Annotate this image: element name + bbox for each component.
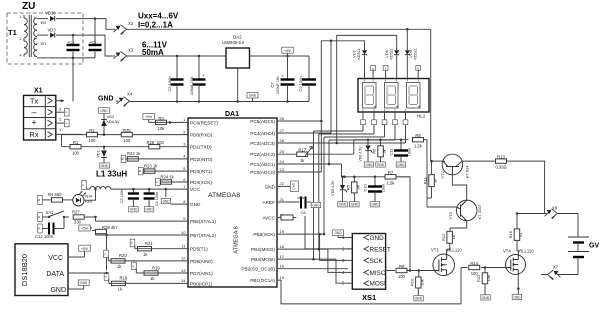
svg-text:GND: GND xyxy=(513,295,521,299)
svg-text:220uF 16V: 220uF 16V xyxy=(190,76,194,95)
resistor R17 xyxy=(297,147,313,163)
zener VD6 xyxy=(359,140,374,167)
resistor R23 xyxy=(144,163,158,173)
svg-text:GND: GND xyxy=(146,208,154,212)
svg-text:1,5k: 1,5k xyxy=(387,180,396,185)
svg-text:100: 100 xyxy=(123,138,131,143)
svg-text:IRLL110: IRLL110 xyxy=(446,248,462,253)
net box R18 xyxy=(104,273,109,281)
label +5V for R28 xyxy=(79,225,92,231)
svg-text:VCC: VCC xyxy=(190,187,201,192)
wire DA2 output +5V xyxy=(250,55,310,58)
svg-text:3k: 3k xyxy=(356,185,361,189)
wire VD10 to X2 corner xyxy=(56,17,106,20)
wire rail A drop xyxy=(430,29,432,161)
wire pin14 line xyxy=(109,282,188,284)
display digits xyxy=(363,83,421,109)
resistor R10 xyxy=(410,271,425,301)
svg-text:12: 12 xyxy=(181,256,186,261)
wire pin24 xyxy=(277,163,342,166)
svg-text:KT 814: KT 814 xyxy=(465,165,470,179)
resistor R15 xyxy=(476,268,491,301)
resistor R19 xyxy=(136,265,160,281)
svg-text:GND: GND xyxy=(377,163,385,167)
svg-text:25: 25 xyxy=(280,149,285,154)
transistor VT3 xyxy=(448,200,482,221)
svg-text:GND: GND xyxy=(101,164,109,168)
svg-text:26: 26 xyxy=(280,138,285,143)
svg-text:C5 100n: C5 100n xyxy=(167,76,172,91)
net box supply xyxy=(81,181,86,190)
wire pin25 up to base rail xyxy=(353,140,355,155)
svg-text:28: 28 xyxy=(280,116,285,121)
svg-text:X3: X3 xyxy=(128,48,134,53)
svg-text:13: 13 xyxy=(181,268,186,273)
svg-text:GND: GND xyxy=(351,203,359,207)
wire RESET line xyxy=(149,121,188,124)
svg-text:7: 7 xyxy=(34,54,36,58)
net box R21 xyxy=(130,239,135,247)
svg-text:PD6(AIN0): PD6(AIN0) xyxy=(190,259,213,264)
battery GV xyxy=(568,237,599,257)
label ATMEGA8 xyxy=(208,192,240,199)
svg-text:PB0(ICP1): PB0(ICP1) xyxy=(190,281,213,286)
transformer T1 label xyxy=(8,28,17,37)
svg-text:17: 17 xyxy=(280,254,285,259)
wire X6 net xyxy=(517,213,544,215)
wire X1 Tx row up to ground rail xyxy=(56,99,64,102)
svg-text:+C2: +C2 xyxy=(89,40,97,45)
svg-text:5: 5 xyxy=(34,16,36,20)
svg-text:3k: 3k xyxy=(382,149,387,153)
svg-text:R6: R6 xyxy=(372,148,377,154)
svg-text:W2: W2 xyxy=(41,21,47,25)
DS18B20 pin GND xyxy=(50,287,83,294)
wire pin10 line xyxy=(96,232,189,237)
wire pin16 stub xyxy=(277,268,348,270)
wire VCC line xyxy=(86,188,188,191)
svg-text:GND: GND xyxy=(100,109,108,113)
svg-text:R27: R27 xyxy=(72,209,80,214)
transistor VT2 xyxy=(440,154,470,178)
wire MOSI from pin17 xyxy=(277,258,347,283)
svg-text:PD1(TXD): PD1(TXD) xyxy=(190,145,212,150)
ground rail xyxy=(131,100,309,103)
svg-text:R2: R2 xyxy=(89,128,95,133)
svg-text:21: 21 xyxy=(280,197,285,202)
wire R7 to VT1 gate drop xyxy=(396,177,410,230)
svg-text:GND: GND xyxy=(371,203,379,207)
svg-text:1,5k: 1,5k xyxy=(414,143,423,148)
svg-text:R3: R3 xyxy=(158,116,164,121)
svg-text:T1: T1 xyxy=(8,28,17,37)
svg-text:C8: C8 xyxy=(301,210,307,215)
capacitor C4 xyxy=(144,189,159,212)
wire pin27 to rail D xyxy=(277,132,331,134)
svg-text:VT4: VT4 xyxy=(503,249,511,254)
svg-text:+: + xyxy=(202,73,205,78)
svg-text:C9 100n: C9 100n xyxy=(298,76,303,91)
wire VD4 to VCC xyxy=(84,189,95,200)
svg-text:DATA: DATA xyxy=(46,271,64,278)
wire rail I=0.2-1A xyxy=(127,28,431,31)
svg-text:1k: 1k xyxy=(433,179,438,183)
wire R14 to VT4 gate xyxy=(481,266,506,269)
svg-text:R19: R19 xyxy=(152,265,160,270)
wire R13 to X6 xyxy=(507,161,544,213)
transformer T1 secondary winding W1 xyxy=(34,37,47,58)
svg-text:PD0(RXD): PD0(RXD) xyxy=(190,133,213,138)
wire VD3 to C1 and X3 corner xyxy=(56,34,105,37)
svg-text:GND: GND xyxy=(312,203,320,207)
svg-text:R18: R18 xyxy=(120,276,128,281)
transformer T1 core xyxy=(29,15,31,57)
wire ground drop from C1 xyxy=(72,58,74,102)
svg-text:KD4,5V: KD4,5V xyxy=(107,120,121,124)
svg-text:VT2: VT2 xyxy=(440,171,445,179)
svg-text:HL2: HL2 xyxy=(417,114,426,119)
svg-text:4: 4 xyxy=(20,54,22,58)
net box minus row xyxy=(56,109,69,117)
wire SCK from pin19 xyxy=(277,233,347,261)
svg-text:27: 27 xyxy=(280,128,285,133)
svg-text:PD5(T1): PD5(T1) xyxy=(190,247,208,252)
resistor R16 xyxy=(508,212,523,254)
svg-text:ZU: ZU xyxy=(22,1,35,12)
connector X1 body xyxy=(24,95,56,140)
svg-text:PC4(ADC4): PC4(ADC4) xyxy=(250,131,275,136)
resistor R5 xyxy=(346,177,361,207)
svg-text:+C1: +C1 xyxy=(67,40,75,45)
svg-text:PB5(SCK): PB5(SCK) xyxy=(253,232,275,237)
svg-text:C11: C11 xyxy=(389,148,394,156)
svg-text:C4 100n: C4 100n xyxy=(155,192,159,206)
connector XS1 body xyxy=(342,234,391,303)
label +5V at DA2 output xyxy=(282,47,294,56)
connector X3 xyxy=(114,48,134,62)
label GND at X4 xyxy=(98,95,114,102)
svg-text:R20: R20 xyxy=(119,253,127,258)
svg-text:IRLL110: IRLL110 xyxy=(518,249,534,254)
svg-text:Tx: Tx xyxy=(30,96,39,105)
wire pin15 long route xyxy=(277,268,461,304)
wire DATA vertical xyxy=(105,272,108,275)
svg-text:GND: GND xyxy=(50,287,66,294)
svg-text:6: 6 xyxy=(34,37,36,41)
connector X7 xyxy=(548,265,579,280)
svg-text:GND: GND xyxy=(415,297,423,301)
label 6-11V xyxy=(142,41,168,50)
svg-text:KD522: KD522 xyxy=(390,49,394,60)
svg-text:C3 100n: C3 100n xyxy=(120,189,124,203)
capacitor C3 xyxy=(120,189,139,212)
svg-text:PD7(AIN1): PD7(AIN1) xyxy=(190,271,213,276)
svg-text:KD522: KD522 xyxy=(414,49,418,60)
capacitor C2 xyxy=(89,19,102,58)
resistor R25 xyxy=(121,128,132,143)
svg-text:VD3: VD3 xyxy=(48,28,57,33)
svg-text:+5V: +5V xyxy=(81,246,89,251)
capacitor C12 xyxy=(35,217,64,239)
svg-text:PC3(ADC3): PC3(ADC3) xyxy=(250,141,275,146)
svg-text:R10: R10 xyxy=(410,278,415,286)
svg-text:ATMEGA 8: ATMEGA 8 xyxy=(234,226,240,254)
capacitor C11 xyxy=(389,140,412,167)
connector X2 xyxy=(114,21,134,35)
wire pin25 line xyxy=(277,153,354,155)
net box R19 xyxy=(131,262,136,270)
wire gate rail N2 xyxy=(342,176,411,179)
svg-text:R14: R14 xyxy=(470,261,478,266)
svg-text:DA2: DA2 xyxy=(233,35,242,40)
svg-text:Rx: Rx xyxy=(29,130,38,139)
svg-text:+5V: +5V xyxy=(145,114,153,119)
wire pin23 to rail C xyxy=(277,171,321,173)
net box M xyxy=(121,155,126,163)
label 50mA xyxy=(142,48,164,57)
resistor R2 xyxy=(87,128,98,143)
svg-text:X2: X2 xyxy=(128,21,134,26)
resistor R22 xyxy=(127,151,141,161)
net box SA1 left xyxy=(37,213,42,222)
resistor R13 xyxy=(495,155,506,170)
resistor R3 xyxy=(156,116,167,131)
resistor R9 xyxy=(396,264,407,279)
svg-text:R12: R12 xyxy=(441,233,446,241)
svg-text:f: f xyxy=(385,67,386,71)
svg-text:+5V: +5V xyxy=(284,48,292,53)
svg-text:PB4(MISO): PB4(MISO) xyxy=(251,247,275,252)
transistor VT4 MOSFET xyxy=(503,249,534,276)
wire rail C xyxy=(320,41,364,172)
svg-text:24: 24 xyxy=(280,159,285,164)
display top pin squares xyxy=(371,66,421,79)
svg-text:PD2(INT0): PD2(INT0) xyxy=(190,157,213,162)
svg-text:R21: R21 xyxy=(145,241,153,246)
svg-text:R7: R7 xyxy=(388,170,394,175)
svg-text:F: F xyxy=(155,181,159,183)
svg-text:PD3(INT1): PD3(INT1) xyxy=(190,169,213,174)
label L1 33uH xyxy=(96,170,127,179)
wire X4 stub xyxy=(116,100,132,102)
resistor R21 xyxy=(135,241,154,257)
wire corner down to X2 xyxy=(106,19,115,30)
connector X1 label xyxy=(34,88,43,95)
resistor R14 xyxy=(461,261,480,276)
wire R9 to VT1 gate xyxy=(408,269,435,272)
svg-text:GND: GND xyxy=(397,163,405,167)
wire INT1 line xyxy=(143,170,188,172)
wire TXD line xyxy=(62,135,189,148)
svg-text:+: + xyxy=(281,74,284,79)
svg-text:R22 1k: R22 1k xyxy=(127,151,141,156)
svg-text:KD522: KD522 xyxy=(357,49,361,60)
label current xyxy=(138,21,173,30)
chip DA1 right pin labels xyxy=(241,116,284,283)
svg-text:X4: X4 xyxy=(127,92,133,97)
svg-text:R4 560: R4 560 xyxy=(48,192,62,197)
zener VD2 on RXD line xyxy=(99,108,121,135)
svg-text:2: 2 xyxy=(20,37,22,41)
svg-text:VD8: VD8 xyxy=(384,49,389,58)
svg-text:GND: GND xyxy=(482,296,490,300)
display HL2 box xyxy=(358,79,429,119)
resistor R26 xyxy=(146,140,164,149)
svg-text:1k: 1k xyxy=(451,235,456,239)
wire INT0 line xyxy=(126,158,188,160)
svg-text:10k: 10k xyxy=(486,275,491,281)
wire VT2 base to VT3 collector xyxy=(452,175,466,200)
DS18B20 pin VCC xyxy=(48,255,78,262)
wire VT2 collector to R13 xyxy=(462,160,495,162)
svg-text:23: 23 xyxy=(280,167,285,172)
svg-text:X7: X7 xyxy=(553,265,559,270)
svg-text:GND: GND xyxy=(365,163,373,167)
svg-text:100n: 100n xyxy=(382,184,386,192)
svg-text:R17: R17 xyxy=(298,148,306,153)
resistor R12 xyxy=(441,228,456,254)
svg-text:R8: R8 xyxy=(415,133,421,138)
capacitor C6 xyxy=(190,56,206,102)
microcontroller DA1 box xyxy=(188,111,277,287)
svg-text:AREF: AREF xyxy=(262,200,275,205)
svg-text:10k: 10k xyxy=(420,279,425,285)
wire VT3 emitter to VT1 drain xyxy=(450,221,467,228)
svg-text:GND: GND xyxy=(190,202,201,207)
wire AVCC stub xyxy=(277,215,297,220)
svg-text:330: 330 xyxy=(74,219,82,224)
svg-text:VD2: VD2 xyxy=(107,114,116,119)
temperature sensor DS18B20 box xyxy=(15,244,68,296)
wire X6 to battery xyxy=(558,214,579,238)
svg-text:0,33Ω: 0,33Ω xyxy=(495,165,506,170)
diode VD3 xyxy=(48,28,57,38)
svg-text:14: 14 xyxy=(181,278,186,283)
svg-text:100: 100 xyxy=(157,140,165,145)
svg-text:16: 16 xyxy=(280,264,285,269)
wire DA2 ground pin xyxy=(237,68,239,102)
svg-text:100n: 100n xyxy=(408,148,412,156)
svg-text:Uxx=4...6V: Uxx=4...6V xyxy=(138,12,179,21)
label +5V at DS18B20 xyxy=(78,245,90,257)
inductor L1 xyxy=(90,187,111,190)
net box R4 left xyxy=(37,195,42,204)
label Uxx xyxy=(138,12,179,21)
resistor R28 xyxy=(92,225,118,234)
svg-text:GND: GND xyxy=(249,94,257,98)
wire pin22 ground xyxy=(277,181,299,192)
svg-text:VT1: VT1 xyxy=(431,248,439,253)
DS18B20 pin DATA xyxy=(46,271,106,278)
diode VD7 xyxy=(352,47,368,79)
wire pin9 line xyxy=(84,216,188,221)
wire RXD line xyxy=(62,133,189,136)
svg-text:GND: GND xyxy=(370,235,385,242)
svg-text:KT 3107: KT 3107 xyxy=(477,204,482,220)
wire MISO from pin18 xyxy=(277,248,347,273)
svg-text:Red: Red xyxy=(85,199,92,204)
connector X6 xyxy=(545,206,558,219)
svg-text:SCK: SCK xyxy=(370,258,384,265)
resistor R6 xyxy=(372,140,387,167)
wire rail B xyxy=(337,35,397,143)
svg-text:R9: R9 xyxy=(399,264,405,269)
svg-text:GND: GND xyxy=(130,208,138,212)
net box B xyxy=(138,167,143,175)
diode VD9 xyxy=(405,29,418,78)
wire DATA drop xyxy=(106,235,108,271)
wire battery to X7 xyxy=(541,257,578,275)
svg-text:C10: C10 xyxy=(363,184,368,192)
svg-text:VD5 4,5V: VD5 4,5V xyxy=(331,180,335,196)
wire secondary bottom rail xyxy=(37,57,95,60)
svg-text:GND: GND xyxy=(334,231,342,235)
svg-text:R5: R5 xyxy=(346,184,351,190)
svg-text:DS18B20: DS18B20 xyxy=(20,254,29,286)
svg-text:R15: R15 xyxy=(476,274,481,282)
svg-text:GND: GND xyxy=(339,203,347,207)
svg-text:B: B xyxy=(138,170,142,172)
wire pin28 to rail C xyxy=(277,120,321,122)
svg-text:10k: 10k xyxy=(158,126,166,131)
svg-text:C12 100n: C12 100n xyxy=(35,234,54,239)
resistor R27 xyxy=(64,209,84,224)
svg-text:100n: 100n xyxy=(297,196,305,200)
net box plus row xyxy=(56,119,69,127)
capacitor C9 xyxy=(298,56,316,102)
svg-text:C7: C7 xyxy=(270,82,275,88)
chip DA1 left pin labels xyxy=(181,117,218,286)
svg-text:220uF 16v: 220uF 16v xyxy=(276,76,280,94)
resistor R18 xyxy=(109,276,128,292)
label ATMEGA 8 vertical xyxy=(234,226,240,254)
resistor R4 xyxy=(42,192,62,202)
svg-text:GND: GND xyxy=(265,184,276,189)
svg-text:19: 19 xyxy=(280,229,285,234)
power supply block label ZU xyxy=(22,1,35,12)
svg-text:PC6(RESET): PC6(RESET) xyxy=(190,120,218,125)
svg-text:ATMEGA8: ATMEGA8 xyxy=(208,192,240,199)
label +5V for R3 xyxy=(143,114,155,123)
svg-text:SA1: SA1 xyxy=(46,210,55,215)
svg-text:PC5(ADC5): PC5(ADC5) xyxy=(250,119,275,124)
resistor R7 xyxy=(385,170,396,185)
resistor R24 xyxy=(161,174,175,184)
zener VD5 xyxy=(331,176,347,207)
dashed enclosure of mains adapter ZU xyxy=(7,13,83,64)
wire secondary top to VD10 xyxy=(37,18,48,20)
wire X1 Rx row xyxy=(56,133,82,135)
svg-text:VD7: VD7 xyxy=(352,49,357,58)
svg-text:VCC: VCC xyxy=(48,255,63,262)
svg-text:PB7(XTAL2): PB7(XTAL2) xyxy=(190,233,216,238)
svg-text:MISO: MISO xyxy=(370,270,386,277)
wire stub and ground at pin8 xyxy=(161,188,188,204)
wire gate drop lower xyxy=(409,230,411,271)
resistor R20 xyxy=(108,253,127,269)
svg-text:R1: R1 xyxy=(73,140,79,145)
svg-text:DA1: DA1 xyxy=(225,111,239,118)
svg-text:LM2940-5.0: LM2940-5.0 xyxy=(222,40,245,45)
svg-text:PC2(ADC2): PC2(ADC2) xyxy=(250,152,275,157)
svg-text:22: 22 xyxy=(280,181,285,186)
svg-text:PD4(XCK): PD4(XCK) xyxy=(190,180,212,185)
svg-text:X1: X1 xyxy=(34,88,43,95)
connector X1 pin numbers xyxy=(59,107,62,133)
svg-text:100: 100 xyxy=(89,138,97,143)
wire pin11 line xyxy=(135,248,188,250)
svg-text:PC1(ADC1): PC1(ADC1) xyxy=(250,162,275,167)
